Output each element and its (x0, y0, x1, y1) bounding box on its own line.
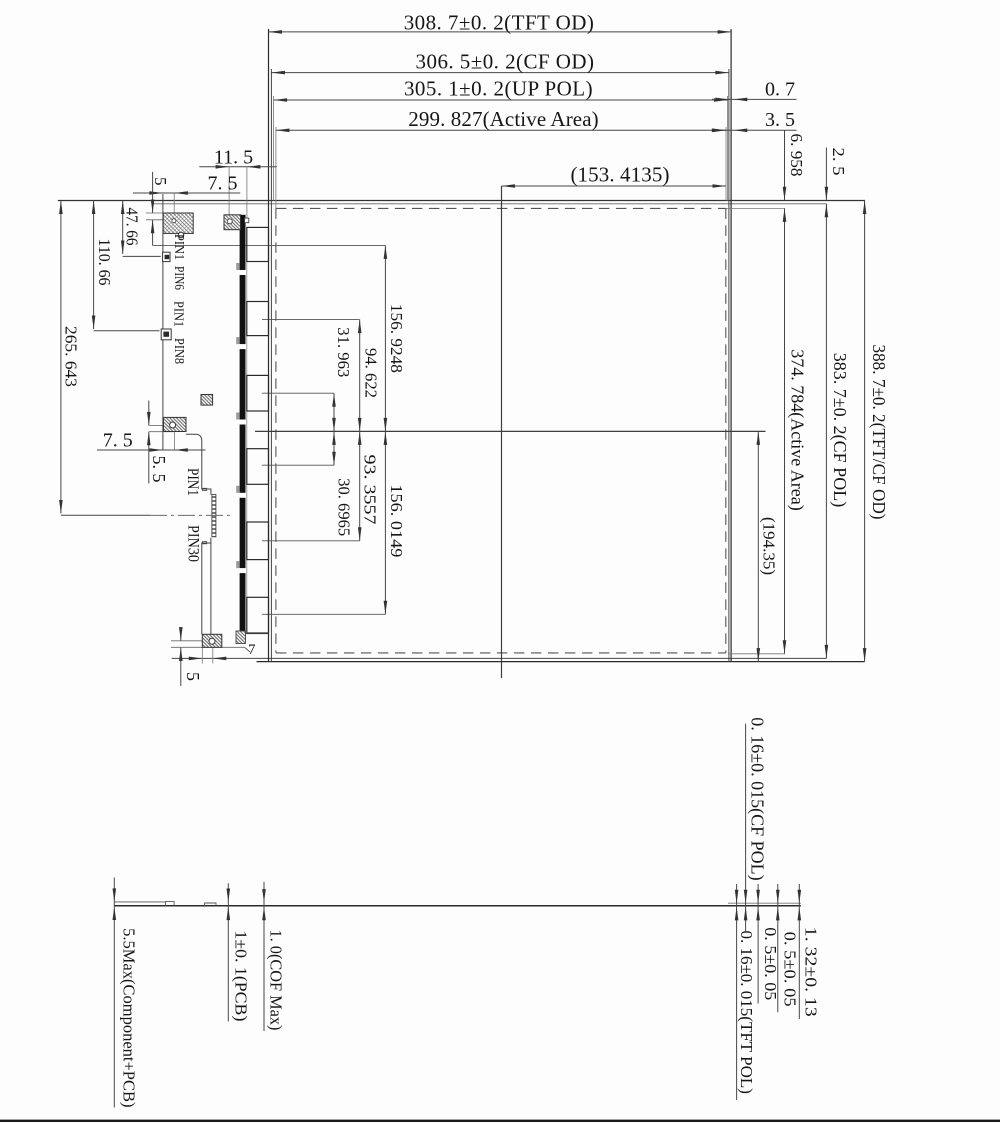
svg-text:11. 5: 11. 5 (214, 147, 253, 169)
dim 0.5±0.05 first line (757, 884, 759, 1004)
dim 305.1 UP POL line (274, 99, 728, 101)
FPC body outline lower (202, 538, 211, 635)
active area bottom extension to 374.784 dim (728, 653, 785, 655)
dim 5.5 upper line with down arrow (148, 401, 150, 426)
hatched block A (top-left mounting pad) (163, 213, 193, 233)
svg-text:0. 5±0. 05: 0. 5±0. 05 (761, 927, 780, 1000)
svg-text:PIN1: PIN1 (184, 468, 201, 496)
small hatched square E (201, 395, 213, 406)
hatched block D (bottom mounting pad) (202, 634, 222, 647)
dim 5 bottom vertical (180, 628, 182, 641)
svg-text:47. 66: 47. 66 (122, 208, 141, 246)
dim 0.7 line and arrows (712, 98, 797, 100)
dim 7.5 mid line (97, 449, 206, 451)
dim 5.5Max line (113, 878, 115, 1108)
svg-text:305. 1±0. 2(UP POL): 305. 1±0. 2(UP POL) (404, 77, 593, 101)
tab3 center connector line (262, 392, 334, 394)
svg-text:93. 3557: 93. 3557 (361, 455, 380, 526)
svg-text:5: 5 (183, 672, 203, 681)
panel left edge TFT OD (extends up to 308.7 dim) (268, 29, 270, 662)
svg-text:0. 5±0. 05: 0. 5±0. 05 (781, 932, 800, 1007)
tab1 center connector line (153, 244, 386, 246)
dim 11.5 line (199, 166, 276, 168)
glass ledge edge line (tab left boundary) (246, 227, 248, 633)
dim 0.16 TFT POL line (736, 884, 738, 1100)
panel right edge CF OD (extends up) (728, 69, 730, 662)
svg-text:1. 32±0. 13: 1. 32±0. 13 (802, 927, 821, 1017)
dim 1.0(COF Max) line (263, 882, 265, 1031)
svg-text:30. 6965: 30. 6965 (335, 478, 354, 536)
svg-text:1±0. 1(PCB): 1±0. 1(PCB) (232, 930, 251, 1021)
dim 0.16 CF POL line (745, 724, 747, 931)
dim 156.0149 line (384, 431, 386, 614)
panel bottom edge (TFT OD bottom), extended right (257, 661, 865, 663)
svg-text:(194.35): (194.35) (759, 517, 778, 575)
panel right edge TFT OD (extends up) (730, 29, 732, 662)
block D top line (171, 640, 202, 642)
dim 2.5 + 383.7 line (825, 148, 827, 201)
dim 31.963 line (333, 393, 335, 431)
FPC gold finger strip (212, 494, 216, 536)
dim 265.643 jog to FPC centerline (61, 514, 150, 516)
COF tab footprints on glass edge (6 tabs) (247, 227, 269, 261)
ext line x174 for 7.5 (173, 432, 175, 451)
block D circle (209, 638, 215, 644)
tab2 center connector line (262, 319, 360, 321)
tab4 center connector line (262, 464, 334, 466)
block B circle (227, 219, 232, 224)
FPC body outline upper (186, 434, 211, 494)
dim 308.7 TFT OD line (269, 31, 732, 33)
hatched block B (small pad) (224, 215, 241, 230)
small bump at COF bar top (245, 218, 249, 223)
svg-text:PIN1: PIN1 (170, 301, 185, 327)
svg-text:299. 827(Active Area): 299. 827(Active Area) (408, 107, 598, 131)
svg-text:PIN1: PIN1 (171, 234, 186, 260)
side view component bump 1 (166, 902, 175, 906)
dim 1±0.1(PCB) line (227, 883, 229, 1021)
dim 94.622 line (359, 320, 361, 432)
tick left of block A (5 dim lower ref) (146, 219, 163, 221)
svg-text:388. 7±0. 2(TFT/CF OD): 388. 7±0. 2(TFT/CF OD) (868, 345, 889, 520)
side view component bump 2 (205, 903, 216, 906)
tick block C circle center ext (149, 424, 163, 426)
svg-text:5.5Max(Component+PCB): 5.5Max(Component+PCB) (120, 928, 139, 1107)
right extension line Active Area (725, 127, 727, 201)
dim (194.35) line (757, 431, 759, 661)
panel top edge second line (CF/POL) (153, 203, 827, 205)
COF bar hatched bottom cap (236, 631, 246, 644)
COF bar segment breaks and side nubs (239, 270, 247, 275)
dim 388.7 line (864, 201, 866, 662)
svg-text:7: 7 (248, 642, 256, 658)
svg-text:383. 7±0. 2(CF POL): 383. 7±0. 2(CF POL) (829, 353, 850, 507)
svg-text:94. 622: 94. 622 (362, 348, 381, 398)
active area top extension to 374.784 dim (726, 207, 785, 209)
FPC centerline (dash-dot) (150, 514, 232, 516)
ext line for 11.5 left (to block B circle) (228, 167, 230, 222)
svg-text:0. 7: 0. 7 (765, 79, 795, 101)
dim 110.66 jog to pin (94, 330, 160, 332)
svg-text:6. 958: 6. 958 (787, 134, 806, 177)
active area right edge (dashed) (725, 208, 727, 653)
side view main glass line (114, 905, 801, 907)
dim 156.9248 line (384, 245, 386, 431)
block A circle 2 (178, 232, 184, 238)
svg-text:(153. 4135): (153. 4135) (570, 163, 669, 187)
block A circle 1 (172, 219, 176, 223)
dim 299.827 Active Area line (276, 129, 726, 131)
svg-text:PIN30: PIN30 (184, 525, 201, 562)
dim (153.4135) line (502, 185, 727, 187)
tick block C bottom ext (149, 431, 175, 433)
left extension line UP POL (273, 96, 275, 201)
dim 0.5±0.05 second line (777, 884, 779, 1012)
tick for dim 5 top (block A top edge ext) (146, 212, 163, 214)
dim 306.5 CF OD line (271, 72, 729, 74)
svg-text:110. 66: 110. 66 (95, 239, 114, 286)
panel left edge CF OD (extends up to 306.5 dim) (270, 69, 272, 662)
dim 47.66 jog to pin (123, 255, 161, 257)
pin connector symbol PIN1-PIN6 (163, 252, 170, 261)
side view CF POL top line (right) (728, 902, 801, 904)
block D bottom line with corner tick (171, 646, 245, 648)
pin connector symbol PIN1-PIN8 (161, 329, 171, 340)
panel bottom edge (CF POL bottom), extended for dims (172, 657, 827, 659)
svg-text:0. 16±0. 015(TFT POL): 0. 16±0. 015(TFT POL) (737, 930, 756, 1093)
svg-text:5: 5 (151, 177, 170, 186)
dim 1.32±0.13 line (798, 884, 800, 1019)
tab6 center connector line (262, 613, 385, 615)
svg-text:306. 5±0. 2(CF OD): 306. 5±0. 2(CF OD) (416, 50, 595, 74)
dim 7.5 top line (133, 192, 240, 194)
svg-text:265. 643: 265. 643 (62, 326, 81, 387)
svg-text:156. 0149: 156. 0149 (387, 484, 406, 557)
side view PCB top line (114, 901, 165, 903)
svg-text:3. 5: 3. 5 (765, 109, 795, 131)
svg-text:156. 9248: 156. 9248 (387, 304, 406, 373)
dim 93.3557 line (359, 431, 361, 540)
dim 110.66 line (93, 201, 95, 330)
ledge line above bottom (245, 633, 268, 635)
svg-text:374. 784(Active Area): 374. 784(Active Area) (786, 349, 807, 510)
svg-text:PIN6: PIN6 (171, 266, 186, 290)
svg-text:0. 16±0. 015(CF POL): 0. 16±0. 015(CF POL) (747, 717, 768, 880)
dim 7 arrows on bottom line (189, 657, 203, 661)
tab5 center connector line (262, 540, 360, 542)
svg-text:1. 0(COF Max): 1. 0(COF Max) (267, 930, 286, 1031)
ext line for 11.5 right (246, 167, 248, 218)
ext line 7.5-top right (to block A circle) (173, 193, 175, 221)
ext lines for dim 7 (201, 647, 203, 663)
svg-text:308. 7±0. 2(TFT OD): 308. 7±0. 2(TFT OD) (404, 11, 595, 35)
active area top edge (dashed) (276, 207, 726, 209)
active area left edge (dashed) (275, 208, 277, 653)
left extension line Active Area (275, 127, 277, 208)
horizontal centerline of panel (255, 430, 766, 432)
dim 30.6965 line (333, 431, 335, 465)
drawing frame border line at bottom (0, 1120, 1000, 1122)
FPC nub lower (203, 542, 207, 544)
svg-text:7. 5: 7. 5 (208, 173, 238, 195)
active area bottom edge (dashed) (276, 652, 726, 654)
svg-text:7. 5: 7. 5 (103, 430, 133, 452)
dim 265.643 line (60, 201, 62, 514)
hatched block C (mid mounting pad) (164, 417, 187, 431)
dim 5 top-left vertical line (152, 172, 154, 213)
dim 6.958 + 374.784 line (784, 130, 786, 200)
connector left edge line (162, 194, 164, 450)
COF bar body (black) (240, 215, 246, 634)
svg-text:2. 5: 2. 5 (829, 148, 848, 176)
svg-text:31. 963: 31. 963 (334, 327, 353, 377)
block C circle (170, 422, 176, 428)
panel top edge (TFT OD top), extended left and right for dimensions (58, 200, 865, 202)
right extension line UP POL (727, 96, 729, 201)
vertical centerline of panel (501, 186, 503, 678)
dim 5.5 lower line with up arrow (148, 432, 150, 484)
FPC nub upper (203, 488, 207, 490)
dim 3.5 line and arrows (712, 129, 797, 131)
dim 47.66 line (122, 201, 124, 255)
svg-text:PIN8: PIN8 (171, 338, 186, 364)
svg-text:5. 5: 5. 5 (149, 456, 169, 483)
